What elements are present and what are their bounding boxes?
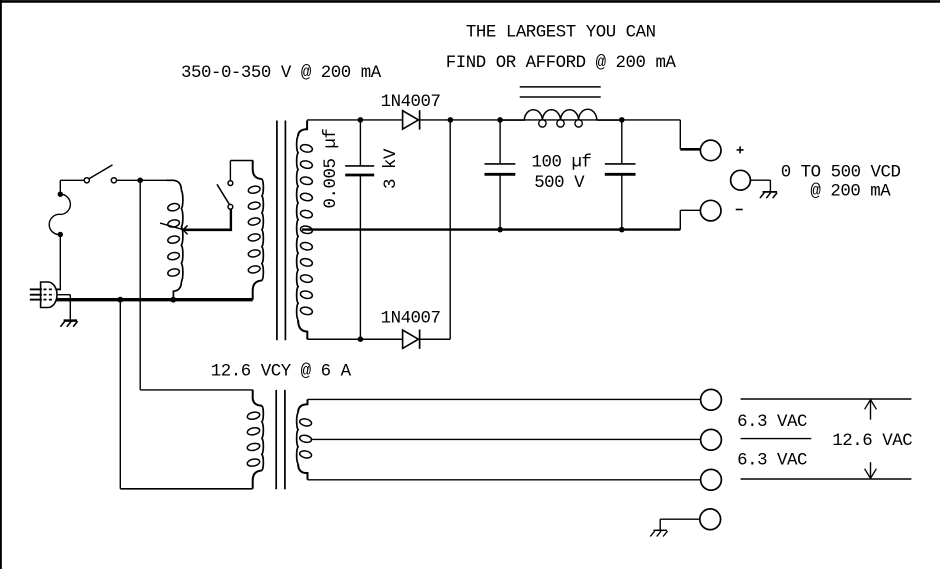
junction: neutral / filament feed: [117, 297, 123, 303]
transformer T2 core: [277, 121, 286, 341]
wire: HV bottom rail (to D2): [307, 338, 450, 340]
label: THE LARGEST YOU CAN: [466, 24, 656, 43]
transformer T3 secondary winding 12.6 V CT: [297, 399, 313, 479]
svg-text:1N4007: 1N4007: [381, 309, 441, 328]
wire: center tap to terminal: [311, 438, 701, 440]
junction: top rail / spike cap: [358, 117, 364, 123]
svg-text:THE LARGEST YOU CAN: THE LARGEST YOU CAN: [466, 24, 656, 43]
wire: 6.3 V tap A to terminal: [308, 398, 701, 400]
wire: plug safety-ground lead: [58, 295, 71, 320]
terminal chassis/ground output: [731, 170, 751, 190]
center-tap rail (0 V): [302, 228, 680, 230]
wire: neutral down to filament transformer primary: [120, 300, 252, 489]
AC plug P1: [30, 282, 57, 308]
label: 6.3 VAC (upper): [737, 413, 807, 432]
transformer T3 core: [276, 390, 285, 489]
junction: top rail / filter cap C3: [619, 117, 625, 123]
junction: center rail / C2: [497, 227, 503, 233]
transformer T2 primary winding: [248, 160, 264, 299]
choke L1 (filter inductor): [500, 109, 622, 127]
label: 1N4007 (top): [381, 93, 441, 112]
terminal filament center tap: [701, 429, 722, 450]
junction: top rail / filter cap C2: [497, 117, 503, 123]
switch S1 (mains on/off): [84, 165, 116, 183]
svg-text:350-0-350 V @ 200 mA: 350-0-350 V @ 200 mA: [181, 64, 382, 83]
wire: 6.3 V tap B to terminal: [308, 479, 701, 481]
label: 350-0-350 V @ 200 mA: [181, 64, 382, 83]
fuse F1: [49, 192, 70, 238]
dimension line: 6.3 VAC bottom: [741, 478, 912, 480]
dimension arrow down: [865, 462, 877, 478]
dimension line: 6.3 VAC top: [741, 398, 912, 400]
terminal filament ground: [700, 509, 721, 530]
label: 6.3 VAC (lower): [737, 452, 807, 471]
svg-text:1N4007: 1N4007: [381, 93, 441, 112]
capacitor C3 100 uF 500 V (output filter): [605, 120, 636, 230]
svg-text:100 µf: 100 µf: [532, 153, 592, 172]
terminal + output: [700, 140, 721, 161]
variac T1 (autotransformer): [166, 180, 183, 298]
wire: switch S1 to variac top / node A: [117, 179, 169, 181]
diode D1 1N4007 (top): [403, 110, 420, 129]
wire: top rail to + output terminal: [680, 120, 700, 149]
diode D2 1N4007 (bottom): [403, 330, 420, 349]
wire: switch S2 up to transformer T2 primary: [230, 161, 252, 181]
svg-text:FIND OR AFFORD @ 200 mA: FIND OR AFFORD @ 200 mA: [446, 54, 677, 73]
svg-text:12.6 VCY @ 6 A: 12.6 VCY @ 6 A: [211, 362, 352, 381]
svg-text:500 V: 500 V: [534, 174, 585, 193]
svg-text:0 TO 500 VCD: 0 TO 500 VCD: [781, 163, 901, 182]
wire: filament ground terminal to ground: [660, 519, 700, 530]
variac wiper arrow: [160, 223, 231, 234]
label: 12.6 VCY @ 6 A: [211, 362, 352, 381]
wire: node A down to filament transformer primary (hot): [140, 180, 253, 390]
capacitor C1 0.005 uF 3 kV: [345, 120, 374, 339]
svg-text:12.6 VAC: 12.6 VAC: [832, 432, 912, 451]
ground (filament): [650, 530, 667, 536]
terminal - output: [700, 200, 721, 221]
wire: fuse to switch S1: [60, 179, 84, 181]
label: 100 uF: [532, 153, 592, 172]
transformer T3 primary winding: [247, 390, 264, 489]
svg-text:0.005 µf: 0.005 µf: [322, 129, 341, 209]
svg-text:3 kV: 3 kV: [382, 148, 401, 189]
ground (output common): [760, 192, 777, 198]
wire: D2 cathode up to top rail: [449, 120, 451, 339]
junction: bottom rail / spike cap: [358, 336, 364, 342]
label: 3 kV (rotated): [382, 148, 401, 189]
dimension line: center: [741, 438, 812, 440]
dimension arrow up: [865, 400, 877, 420]
switch S2 (HV on/off): [217, 181, 233, 210]
label: 0.005 uF (rotated): [322, 129, 341, 209]
neutral rail (thick bottom wire): [57, 298, 253, 301]
svg-text:@ 200 mA: @ 200 mA: [810, 183, 891, 202]
ground (below plug): [60, 321, 77, 327]
transformer T2 secondary winding 350-0-350: [297, 121, 313, 340]
wire: center rail to - output terminal: [680, 210, 700, 229]
label: FIND OR AFFORD @ 200 mA: [446, 54, 677, 73]
label: +: [737, 146, 744, 153]
junction: center rail / C3: [619, 227, 625, 233]
label: -: [736, 209, 743, 211]
label: @ 200 mA: [810, 183, 891, 202]
wire: hot lead from plug up to fuse: [56, 180, 61, 289]
junction: neutral / variac bottom: [170, 297, 176, 303]
label: 12.6 VAC: [832, 432, 912, 451]
label: 0 TO 500 VCD: [781, 163, 901, 182]
svg-text:6.3 VAC: 6.3 VAC: [737, 413, 807, 432]
terminal filament 6.3 VAC A: [701, 389, 722, 410]
node A junction: [137, 178, 143, 184]
choke L1 core: [520, 87, 601, 97]
terminal filament 6.3 VAC B: [701, 469, 722, 490]
wire: wiper to switch S2: [230, 209, 232, 231]
wire: ground terminal to chassis ground: [750, 180, 770, 191]
label: 500 V: [534, 174, 585, 193]
label: 1N4007 (bottom): [381, 309, 441, 328]
wire: HV top rail: [307, 119, 680, 121]
junction: top rail / bottom diode return: [448, 117, 454, 123]
capacitor C2 100 uF 500 V (input filter): [485, 120, 516, 230]
svg-text:6.3 VAC: 6.3 VAC: [737, 452, 807, 471]
